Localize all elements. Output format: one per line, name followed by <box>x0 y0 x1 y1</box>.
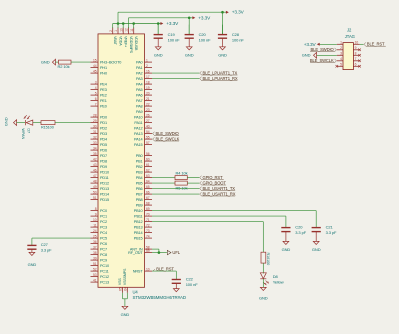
svg-text:12: 12 <box>125 28 129 32</box>
svg-text:PC2: PC2 <box>100 220 107 224</box>
svg-text:10: 10 <box>146 267 150 271</box>
svg-text:GND: GND <box>312 247 321 252</box>
svg-text:66: 66 <box>146 190 150 194</box>
svg-text:PD8: PD8 <box>100 160 107 164</box>
svg-text:100 nF: 100 nF <box>232 37 245 42</box>
svg-text:34: 34 <box>93 146 97 150</box>
svg-text:49: 49 <box>93 185 97 189</box>
svg-text:+3.3V: +3.3V <box>304 42 317 47</box>
svg-text:PD4: PD4 <box>100 138 107 142</box>
svg-text:1: 1 <box>114 30 118 32</box>
svg-text:2: 2 <box>109 30 113 32</box>
svg-text:PA4: PA4 <box>136 83 143 87</box>
svg-text:GND: GND <box>282 247 291 252</box>
svg-text:57: 57 <box>146 141 150 145</box>
svg-text:36: 36 <box>93 240 97 244</box>
svg-text:2: 2 <box>146 64 148 68</box>
svg-text:9: 9 <box>355 46 357 50</box>
svg-text:21: 21 <box>146 97 150 101</box>
svg-text:PD3: PD3 <box>100 132 107 136</box>
svg-text:PD12: PD12 <box>100 182 109 186</box>
svg-text:PD15: PD15 <box>100 198 109 202</box>
svg-text:PC1: PC1 <box>100 215 107 219</box>
svg-text:3: 3 <box>340 52 342 56</box>
svg-text:R2 10k: R2 10k <box>58 64 70 69</box>
svg-text:PA1: PA1 <box>136 66 143 70</box>
svg-text:C28: C28 <box>232 32 240 37</box>
svg-text:55: 55 <box>146 135 150 139</box>
svg-text:GND: GND <box>3 117 8 126</box>
svg-text:VDDSMPS: VDDSMPS <box>129 36 133 54</box>
svg-text:10: 10 <box>93 218 97 222</box>
svg-text:54: 54 <box>146 130 150 134</box>
svg-text:70: 70 <box>146 212 150 216</box>
svg-text:PD13: PD13 <box>100 187 109 191</box>
svg-text:PD11: PD11 <box>100 176 109 180</box>
svg-text:63: 63 <box>146 174 150 178</box>
svg-text:69: 69 <box>146 207 150 211</box>
svg-text:RF_OUT: RF_OUT <box>128 251 143 255</box>
svg-text:16: 16 <box>146 69 150 73</box>
svg-text:PA10: PA10 <box>134 116 142 120</box>
svg-text:PA7: PA7 <box>136 99 143 103</box>
svg-text:GND: GND <box>218 52 227 57</box>
svg-text:PC5: PC5 <box>100 237 107 241</box>
svg-text:27: 27 <box>146 119 150 123</box>
svg-text:38: 38 <box>93 251 97 255</box>
svg-text:PB5: PB5 <box>136 182 143 186</box>
svg-text:73: 73 <box>146 229 150 233</box>
svg-text:PE2: PE2 <box>100 94 107 98</box>
svg-text:4: 4 <box>95 86 97 90</box>
svg-text:UFL: UFL <box>172 250 180 255</box>
svg-text:6: 6 <box>95 97 97 101</box>
svg-text:PD2: PD2 <box>100 127 107 131</box>
svg-text:3.3 pF: 3.3 pF <box>295 230 306 235</box>
svg-text:VREF+: VREF+ <box>124 36 128 47</box>
svg-text:C27: C27 <box>41 242 49 247</box>
svg-text:BLE_SWCLK: BLE_SWCLK <box>156 137 180 142</box>
svg-text:PC4: PC4 <box>100 231 107 235</box>
svg-text:PB10: PB10 <box>134 209 143 213</box>
svg-text:PB7: PB7 <box>136 193 143 197</box>
svg-text:PD9: PD9 <box>100 165 107 169</box>
svg-text:68: 68 <box>146 201 150 205</box>
svg-text:44: 44 <box>93 64 97 68</box>
svg-text:PC13: PC13 <box>100 281 109 285</box>
svg-text:PH0: PH0 <box>100 72 107 76</box>
svg-text:43: 43 <box>93 163 97 167</box>
svg-text:PC8: PC8 <box>100 253 107 257</box>
svg-text:52: 52 <box>93 267 97 271</box>
svg-text:PB3: PB3 <box>136 171 143 175</box>
svg-text:+3.3V: +3.3V <box>198 15 211 20</box>
svg-text:31: 31 <box>93 130 97 134</box>
svg-text:PE4: PE4 <box>100 83 107 87</box>
svg-text:PE0: PE0 <box>100 105 107 109</box>
svg-text:35: 35 <box>93 152 97 156</box>
svg-text:PA5: PA5 <box>136 88 143 92</box>
svg-text:PA11: PA11 <box>134 121 142 125</box>
svg-text:25: 25 <box>93 234 97 238</box>
svg-text:BLE_USART1_TX: BLE_USART1_TX <box>203 186 236 191</box>
svg-text:BLE_LPUART1_RX: BLE_LPUART1_RX <box>203 76 238 81</box>
svg-text:BLE_SWDIO: BLE_SWDIO <box>156 131 180 136</box>
svg-text:PC0: PC0 <box>100 209 107 213</box>
svg-text:PA12: PA12 <box>134 127 142 131</box>
svg-text:100 nF: 100 nF <box>199 37 212 42</box>
svg-text:BLE_SWDIO: BLE_SWDIO <box>311 47 335 52</box>
svg-text:26: 26 <box>146 113 150 117</box>
svg-text:30: 30 <box>93 124 97 128</box>
svg-text:8: 8 <box>355 52 357 56</box>
svg-text:7: 7 <box>355 57 357 61</box>
svg-text:45: 45 <box>93 69 97 73</box>
svg-text:GND: GND <box>28 262 37 267</box>
svg-text:5: 5 <box>340 63 342 67</box>
svg-text:PD0: PD0 <box>100 116 107 120</box>
svg-text:23: 23 <box>146 108 150 112</box>
svg-text:51: 51 <box>93 196 97 200</box>
svg-text:1: 1 <box>340 41 342 45</box>
svg-text:50: 50 <box>93 190 97 194</box>
svg-text:PB9: PB9 <box>136 204 143 208</box>
svg-text:2: 2 <box>340 46 342 50</box>
svg-text:PA6: PA6 <box>136 94 143 98</box>
svg-text:PA14: PA14 <box>134 138 142 142</box>
svg-text:20: 20 <box>146 91 150 95</box>
svg-text:C21: C21 <box>326 225 334 230</box>
svg-text:STM32WB5MMGH6TR#AD: STM32WB5MMGH6TR#AD <box>133 295 187 300</box>
svg-text:PD7: PD7 <box>100 154 107 158</box>
svg-text:U4: U4 <box>133 290 139 295</box>
svg-text:PD10: PD10 <box>100 171 109 175</box>
svg-text:BLE_RST: BLE_RST <box>156 267 174 272</box>
svg-text:PD14: PD14 <box>100 193 109 197</box>
svg-text:51: 51 <box>93 262 97 266</box>
svg-text:PE1: PE1 <box>100 99 107 103</box>
svg-text:PH1: PH1 <box>100 66 107 70</box>
svg-text:PA13: PA13 <box>134 132 142 136</box>
svg-text:NRST: NRST <box>133 270 144 274</box>
svg-text:4: 4 <box>340 57 342 61</box>
svg-text:PA3: PA3 <box>136 77 143 81</box>
svg-text:GPIO_RST: GPIO_RST <box>203 175 224 180</box>
svg-text:65: 65 <box>146 185 150 189</box>
svg-text:PA9: PA9 <box>136 110 143 114</box>
svg-text:3: 3 <box>95 80 97 84</box>
svg-text:GND: GND <box>302 53 311 58</box>
svg-text:PC12: PC12 <box>100 275 109 279</box>
svg-text:PD5: PD5 <box>100 143 107 147</box>
svg-text:PB12: PB12 <box>134 220 143 224</box>
svg-text:PB11: PB11 <box>134 215 142 219</box>
svg-text:VDDA: VDDA <box>118 36 122 46</box>
svg-text:BLE_USART1_RX: BLE_USART1_RX <box>203 192 236 197</box>
svg-text:PC3: PC3 <box>100 226 107 230</box>
svg-text:PC6: PC6 <box>100 242 107 246</box>
svg-text:29: 29 <box>93 119 97 123</box>
svg-text:PC9: PC9 <box>100 259 107 263</box>
svg-text:46: 46 <box>93 168 97 172</box>
svg-text:C20: C20 <box>295 225 303 230</box>
svg-text:65: 65 <box>119 287 123 291</box>
svg-text:VDDUSB: VDDUSB <box>134 36 138 51</box>
svg-text:PA2: PA2 <box>136 72 143 76</box>
svg-text:3.3 pF: 3.3 pF <box>41 248 52 253</box>
svg-text:C19: C19 <box>168 32 176 37</box>
svg-text:41: 41 <box>93 278 97 282</box>
svg-text:C22: C22 <box>186 277 194 282</box>
svg-text:PB14: PB14 <box>134 231 143 235</box>
svg-text:100 nF: 100 nF <box>186 282 199 287</box>
svg-text:BLE_LPUART1_TX: BLE_LPUART1_TX <box>203 71 238 76</box>
svg-text:18: 18 <box>146 80 150 84</box>
svg-text:PC7: PC7 <box>100 248 107 252</box>
svg-text:5: 5 <box>95 91 97 95</box>
svg-text:67: 67 <box>146 196 150 200</box>
svg-text:59: 59 <box>146 249 150 253</box>
svg-text:D7: D7 <box>27 128 31 133</box>
svg-text:7: 7 <box>95 102 97 106</box>
svg-text:24: 24 <box>93 229 97 233</box>
svg-text:VSS: VSS <box>118 278 122 286</box>
svg-text:JTAG: JTAG <box>345 34 355 39</box>
svg-text:17: 17 <box>146 75 150 79</box>
svg-text:100 nF: 100 nF <box>168 37 181 42</box>
svg-text:GND: GND <box>154 52 163 57</box>
svg-text:40: 40 <box>146 124 150 128</box>
svg-text:19: 19 <box>146 86 150 90</box>
svg-text:R5 10k: R5 10k <box>176 185 188 190</box>
svg-text:33: 33 <box>93 141 97 145</box>
svg-text:32: 32 <box>93 135 97 139</box>
svg-text:BLE_SWCLK: BLE_SWCLK <box>310 58 334 63</box>
svg-text:28: 28 <box>93 113 97 117</box>
svg-text:10: 10 <box>355 41 359 45</box>
svg-text:PB4: PB4 <box>136 176 143 180</box>
svg-text:BLE_RST: BLE_RST <box>367 42 385 47</box>
svg-text:GPIO_BOOT: GPIO_BOOT <box>203 181 227 186</box>
svg-text:PA0: PA0 <box>136 61 143 65</box>
svg-text:R15100: R15100 <box>41 126 54 130</box>
svg-text:PA15: PA15 <box>134 143 142 147</box>
svg-text:9: 9 <box>95 212 97 216</box>
svg-text:74: 74 <box>146 234 150 238</box>
svg-text:PB15: PB15 <box>134 237 143 241</box>
svg-text:PB0: PB0 <box>136 154 143 158</box>
svg-text:PB2: PB2 <box>136 165 143 169</box>
svg-text:PC10: PC10 <box>100 264 109 268</box>
svg-text:72: 72 <box>146 223 150 227</box>
svg-text:PH3~BOOT0: PH3~BOOT0 <box>100 61 121 65</box>
svg-text:PA8: PA8 <box>136 105 143 109</box>
svg-text:+3.3V: +3.3V <box>166 21 179 26</box>
svg-text:VSSSMPS: VSSSMPS <box>123 268 127 285</box>
svg-text:Yellow: Yellow <box>273 280 284 285</box>
svg-text:47: 47 <box>93 174 97 178</box>
svg-text:PB1: PB1 <box>136 160 143 164</box>
svg-text:39: 39 <box>93 256 97 260</box>
svg-text:WPAN: WPAN <box>21 128 25 139</box>
svg-text:D8: D8 <box>273 274 279 279</box>
svg-text:15: 15 <box>93 58 97 62</box>
svg-text:PD6: PD6 <box>100 149 107 153</box>
svg-text:PB6: PB6 <box>136 187 143 191</box>
svg-text:11: 11 <box>93 223 96 227</box>
svg-text:PD1: PD1 <box>100 121 107 125</box>
svg-text:GND: GND <box>121 312 130 317</box>
svg-text:64: 64 <box>124 287 128 291</box>
svg-text:11: 11 <box>130 28 134 31</box>
svg-text:71: 71 <box>146 218 150 222</box>
svg-text:PE3: PE3 <box>100 88 107 92</box>
svg-text:62: 62 <box>146 168 150 172</box>
svg-text:PB8: PB8 <box>136 198 143 202</box>
svg-text:PB13: PB13 <box>134 226 143 230</box>
svg-text:56: 56 <box>146 152 150 156</box>
svg-text:42: 42 <box>93 157 97 161</box>
svg-text:37: 37 <box>93 245 97 249</box>
svg-text:6: 6 <box>355 63 357 67</box>
svg-text:60: 60 <box>146 157 150 161</box>
svg-text:8: 8 <box>95 207 97 211</box>
svg-text:64: 64 <box>146 179 150 183</box>
svg-text:3.3 pF: 3.3 pF <box>326 230 337 235</box>
svg-text:1: 1 <box>146 58 148 62</box>
svg-text:PC11: PC11 <box>100 270 109 274</box>
svg-text:48: 48 <box>93 179 97 183</box>
svg-text:R16100: R16100 <box>266 253 270 266</box>
svg-text:R4 10k: R4 10k <box>176 170 188 175</box>
svg-text:53: 53 <box>93 273 97 277</box>
svg-text:GND: GND <box>41 60 50 65</box>
svg-text:VBAT: VBAT <box>113 36 117 46</box>
svg-text:22: 22 <box>146 102 150 106</box>
svg-text:13: 13 <box>119 28 123 32</box>
svg-text:C20: C20 <box>199 32 207 37</box>
svg-text:61: 61 <box>146 163 150 167</box>
svg-text:GND: GND <box>259 296 268 301</box>
svg-text:GND: GND <box>185 52 194 57</box>
svg-text:+3.3V: +3.3V <box>232 10 245 15</box>
